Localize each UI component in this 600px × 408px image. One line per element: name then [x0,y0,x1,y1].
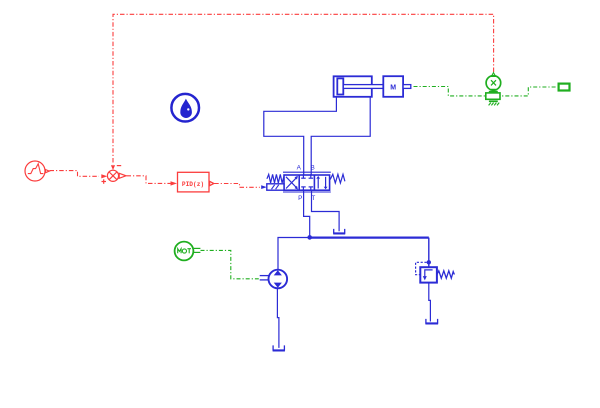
MOT lettering [178,249,191,254]
svg-text:M: M [390,85,396,92]
wire cylinder port A to valve A [264,97,337,175]
wire relief valve to tank [429,283,431,322]
red feedback wire: sensor top -> up -> left -> down to summing junction [113,14,494,164]
4/3 proportional directional valve [283,172,331,192]
bottom rail [283,191,331,193]
valve left spring [267,174,284,183]
left cell crossed arrows [286,177,297,189]
valve body [284,175,330,190]
PID controller block [178,172,214,192]
fluid properties icon (droplet) [171,94,199,122]
pressure line junction to relief valve [310,237,429,239]
top rail [283,171,331,173]
junction dot (P / pump / relief) [307,235,312,240]
position sensor [486,73,501,106]
wire PID to valve solenoid (red dash-dot) [214,184,260,188]
summing junction [102,165,127,184]
relief valve pilot (dashed) [416,262,427,274]
junction dot at relief pilot [427,260,431,264]
right cell parallel arrows [317,178,319,188]
hydraulic pump [260,270,287,289]
wire cylinder port B to valve B [311,97,370,175]
arrow into PID [171,181,178,185]
wire MOT to pump (green dash-dot) [201,250,259,278]
tank below pump [273,345,285,350]
wire valve P to junction [304,190,310,237]
signal source (input waveform) [25,161,49,181]
pressure relief valve [420,267,437,282]
wire mass M to sensor to sink (green dash-dot) [414,87,559,96]
wire pump to tank [277,288,279,348]
svg-text:PID(z): PID(z) [182,181,204,188]
tank at valve T [333,229,345,234]
electric motor MOT [175,242,201,261]
middle cell blocked ports [301,174,313,191]
valve right spring [330,174,345,183]
tank below relief valve [425,319,438,324]
signal sink box [559,84,570,91]
arrow into summing junction [101,174,107,178]
mass M block [383,76,411,97]
svg-text:B: B [310,164,314,171]
relief valve spring [437,271,454,278]
hydraulic cylinder [334,76,384,97]
svg-text:P: P [298,195,302,202]
wire source to summing junction (red dash-dot) [50,171,100,177]
proportional solenoid [261,184,284,190]
wire pump to junction [278,238,308,270]
wire down to relief valve [428,238,430,268]
svg-text:A: A [297,164,302,171]
wire summing junction to PID (red dash-dot) [127,176,171,184]
wire valve T to tank [312,190,340,231]
